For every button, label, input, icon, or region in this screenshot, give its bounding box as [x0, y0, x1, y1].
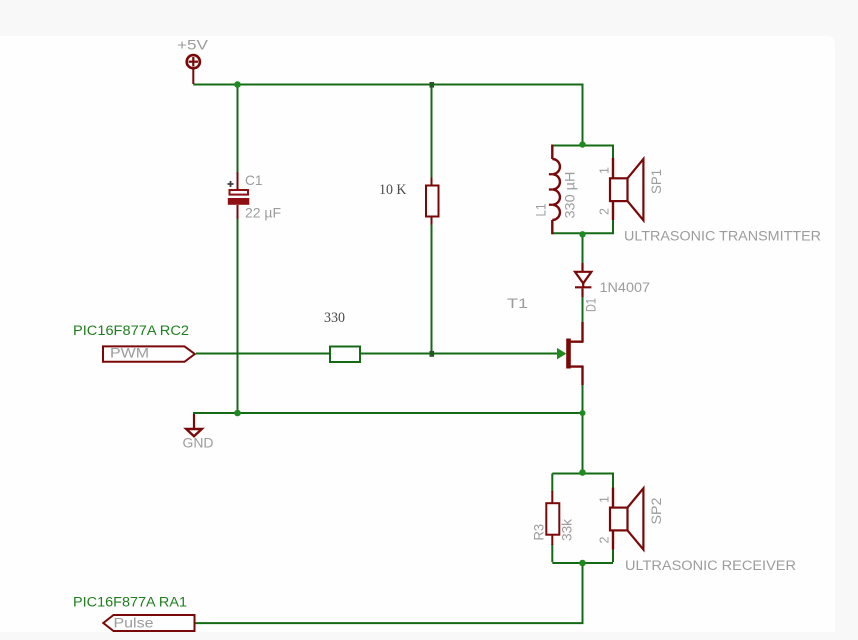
svg-text:PIC16F877A RC2: PIC16F877A RC2	[73, 323, 189, 338]
svg-text:D1: D1	[582, 298, 598, 312]
svg-text:1: 1	[598, 167, 612, 174]
svg-text:L1: L1	[533, 203, 549, 216]
svg-text:SP2: SP2	[648, 497, 664, 524]
svg-text:ULTRASONIC RECEIVER: ULTRASONIC RECEIVER	[625, 558, 796, 573]
svg-text:1N4007: 1N4007	[600, 280, 651, 295]
svg-text:ULTRASONIC TRANSMITTER: ULTRASONIC TRANSMITTER	[624, 229, 821, 244]
svg-text:330: 330	[324, 310, 345, 326]
svg-text:SP1: SP1	[648, 169, 664, 194]
svg-text:GND: GND	[183, 435, 214, 451]
svg-text:PIC16F877A RA1: PIC16F877A RA1	[73, 595, 187, 610]
svg-text:2: 2	[598, 208, 612, 215]
svg-text:330 µH: 330 µH	[562, 172, 578, 219]
svg-text:C1: C1	[245, 172, 263, 188]
svg-text:1: 1	[598, 496, 612, 503]
svg-text:PWM: PWM	[110, 346, 149, 361]
svg-text:2: 2	[598, 537, 612, 544]
svg-text:+5V: +5V	[177, 37, 209, 53]
svg-text:22 µF: 22 µF	[245, 205, 281, 221]
svg-text:R3: R3	[531, 524, 547, 541]
svg-text:10 K: 10 K	[379, 182, 407, 198]
svg-text:T1: T1	[507, 295, 528, 311]
svg-text:Pulse: Pulse	[114, 616, 154, 631]
svg-text:33k: 33k	[559, 518, 575, 541]
